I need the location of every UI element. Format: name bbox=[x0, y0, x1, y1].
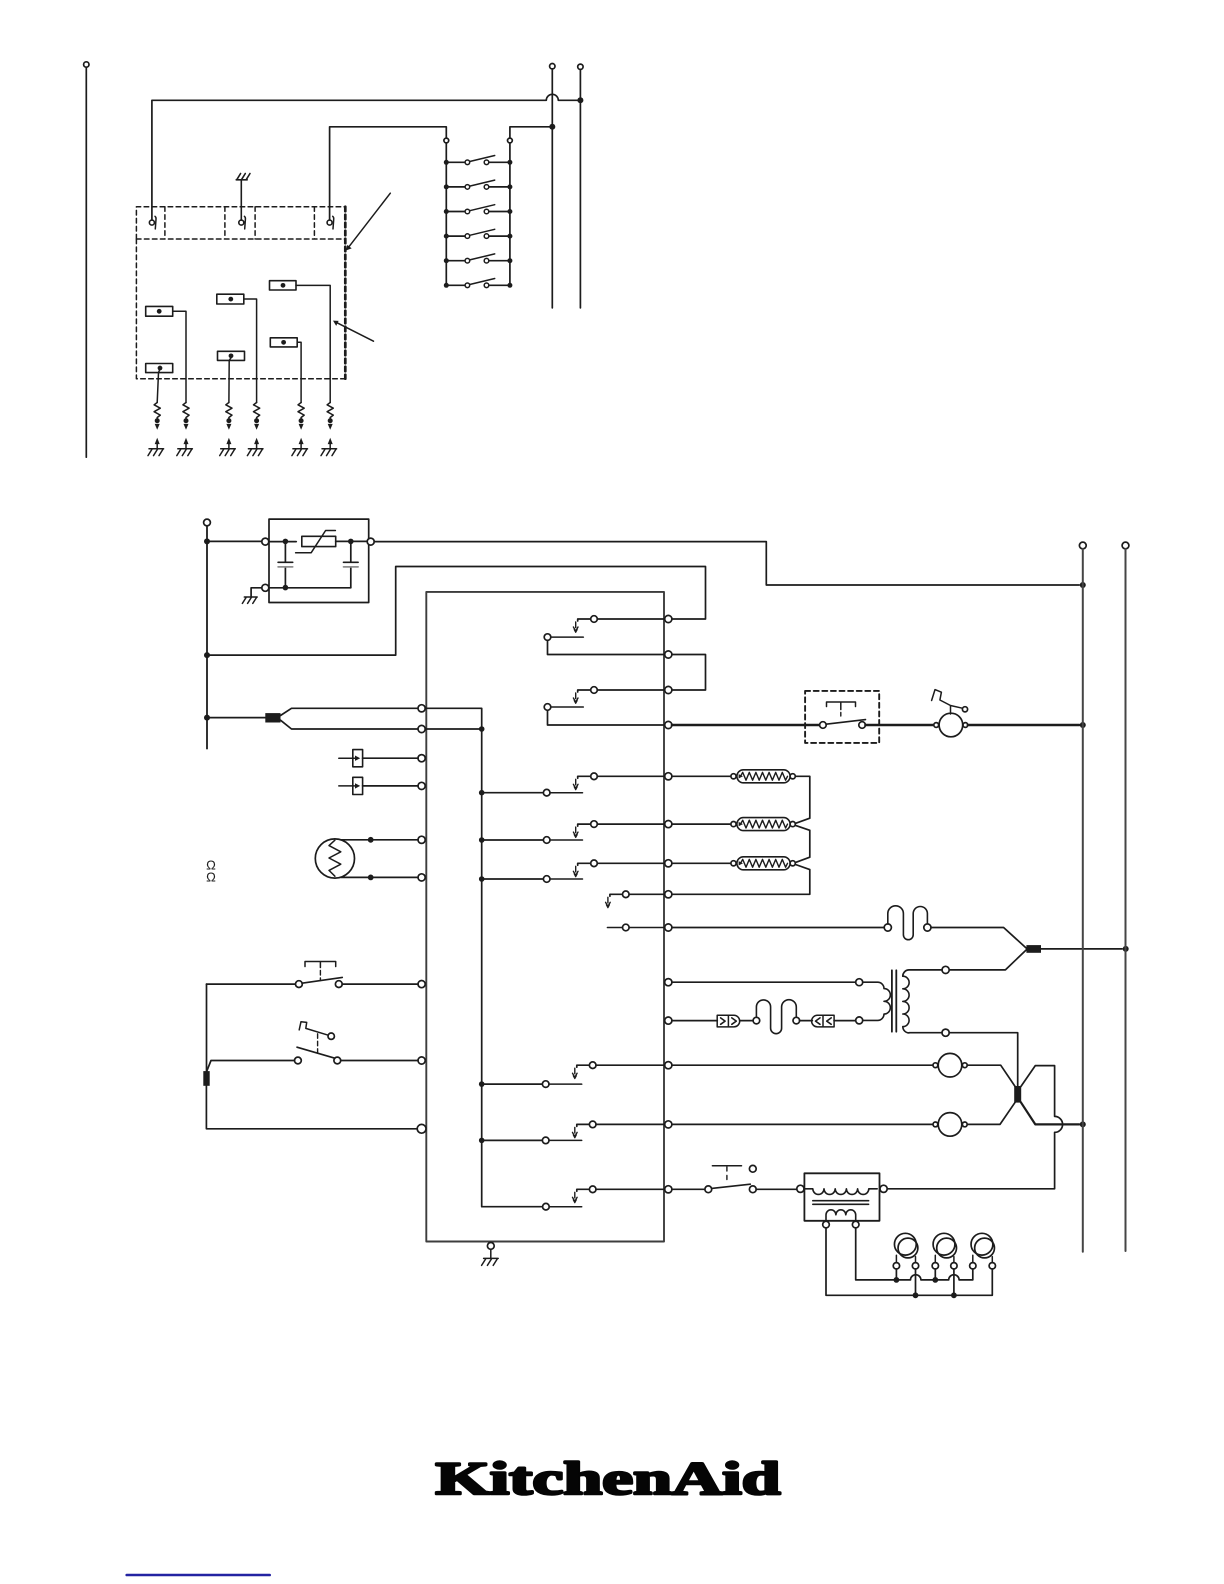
wire element row 1 bbox=[672, 775, 730, 777]
wire filter input row bbox=[207, 540, 262, 542]
wire K3 to bus R2 bbox=[1041, 948, 1122, 950]
connector K1 bbox=[265, 713, 280, 722]
wire cable split upper bbox=[281, 708, 419, 715]
wire cable split lower bbox=[281, 720, 419, 729]
thermal fuse F1 bbox=[884, 924, 891, 931]
pin solenoid 3 terminals bbox=[970, 1263, 976, 1269]
ground chassis (above module) bbox=[236, 174, 250, 221]
capacitor C2 bbox=[344, 541, 359, 587]
pin P-left 758.2 bbox=[418, 755, 425, 762]
switch interlock actuator bbox=[827, 702, 856, 710]
transformer T2 core bbox=[813, 1201, 869, 1205]
svg-text:Ω: Ω bbox=[206, 870, 216, 885]
connector plug CP1 bbox=[717, 1015, 740, 1027]
ground (igniter 6) bbox=[321, 449, 337, 456]
switch SW8 fixed from rail bbox=[479, 1138, 485, 1144]
switch SW-bank row 5 bbox=[444, 258, 449, 263]
igniter electrode block 5 bbox=[270, 281, 297, 290]
pin T2 sec left bbox=[823, 1221, 830, 1228]
wire secondary bottom row bbox=[909, 1032, 942, 1034]
node junction V1 bbox=[549, 124, 555, 130]
wire top feed with hop bbox=[152, 94, 581, 222]
spark gap output 6 bbox=[327, 403, 333, 419]
pin P-right 982.2 bbox=[665, 979, 672, 986]
pin P-left 839.8 bbox=[418, 836, 425, 843]
transformer T2 primary coil bbox=[804, 1189, 877, 1195]
switch SW1 fixed bbox=[544, 634, 551, 641]
leader arrow to igniter wire bbox=[336, 322, 373, 341]
ground (igniter 3) bbox=[220, 449, 236, 456]
control box outline bbox=[426, 592, 664, 1242]
wire element row 3 bbox=[672, 862, 730, 864]
ground (igniter 4) bbox=[247, 449, 263, 456]
wire filter right output bbox=[367, 538, 374, 545]
pin P-right 776.3 bbox=[665, 773, 672, 780]
pin P-right 894.3 bbox=[665, 891, 672, 898]
ground (igniter 5) bbox=[292, 449, 308, 456]
switch interlock contacts bbox=[820, 722, 827, 729]
wire element link right side bbox=[672, 776, 810, 894]
switch SW5 movable bbox=[578, 863, 591, 865]
wire to thermal fuse bbox=[672, 927, 884, 929]
varistor RV1 bbox=[302, 536, 336, 546]
pin P-left 708.3 bbox=[418, 705, 425, 712]
wire fan row to bus bbox=[968, 724, 1080, 727]
wire block4 lead bbox=[229, 358, 231, 403]
node filter nodes bbox=[283, 539, 289, 545]
spark gap output 2 bbox=[183, 403, 189, 419]
wire lamp top lead bbox=[341, 839, 418, 841]
wire bus R2 bbox=[1122, 542, 1129, 549]
pin P-right 1020.6 bbox=[665, 1017, 672, 1024]
switch SW9 fixed (rail corner) bbox=[543, 1203, 550, 1210]
wire X upper-right branch bbox=[887, 1066, 1062, 1189]
igniter electrode block 1 bbox=[146, 306, 173, 316]
switch SW-bank row 4 bbox=[444, 234, 449, 239]
spark gap output 1 bbox=[154, 403, 160, 419]
wire block6 lead bbox=[297, 342, 301, 402]
wire block1 lead bbox=[173, 311, 186, 402]
pin P-left 877.4 bbox=[418, 874, 425, 881]
wire V2 vertical bbox=[578, 64, 583, 69]
pin P-left 984.1 bbox=[418, 981, 425, 988]
terminal pin at x=241.3 bbox=[239, 220, 244, 225]
switch SW4 movable bbox=[578, 824, 591, 826]
switch door-lock actuator bbox=[712, 1165, 741, 1167]
transformer T1 core bbox=[892, 970, 896, 1031]
pin T2 right bbox=[880, 1185, 887, 1192]
pin P-right 1124.4 bbox=[665, 1121, 672, 1128]
pin solenoid 2 terminals bbox=[932, 1263, 938, 1269]
pin P-right 824.1 bbox=[665, 821, 672, 828]
transformer T2 secondary coil bbox=[826, 1210, 856, 1221]
wire solenoid mid bus bbox=[856, 1228, 973, 1280]
wire transformer secondary top bbox=[949, 950, 1026, 970]
wire second feed to ladder bbox=[330, 127, 447, 222]
switch SW6 fixed bbox=[623, 924, 630, 931]
wire filter ground row bbox=[283, 585, 289, 591]
wire lamp bottom lead bbox=[341, 876, 418, 878]
wire fuse to connector K3 bbox=[931, 928, 1026, 949]
wire bus R1 bbox=[1079, 542, 1086, 549]
temp sensor S2 bbox=[353, 777, 363, 794]
terminal pin at x=329.6 bbox=[327, 220, 332, 225]
wire harness row to connector K1 bbox=[207, 717, 265, 719]
node bus dots bbox=[204, 538, 210, 544]
loop fuse F2 bbox=[753, 1017, 760, 1024]
leader arrow to module bbox=[349, 193, 391, 247]
switch latch2 flag lever bbox=[299, 1022, 328, 1035]
switch SW6 movable bbox=[610, 894, 623, 896]
pin P-right 690.0 bbox=[665, 686, 672, 693]
wire left bus bbox=[204, 519, 211, 526]
pin P-right 863.3 bbox=[665, 860, 672, 867]
wire relay feed row bbox=[207, 567, 706, 656]
ground (igniter 1) bbox=[148, 449, 164, 456]
pin P-right 1065.2 bbox=[665, 1062, 672, 1069]
heating element E1 bbox=[731, 774, 736, 779]
node on bus R1 row585 bbox=[1080, 582, 1086, 588]
motor fan M3 bbox=[934, 723, 939, 728]
motor M1 (convection) bbox=[933, 1063, 938, 1068]
wire block5 lead bbox=[296, 285, 330, 402]
motor M2 (convection) bbox=[933, 1122, 938, 1127]
wire element row 2 bbox=[672, 823, 730, 825]
connector plug CP2 bbox=[800, 1020, 813, 1022]
wire primary top row bbox=[672, 981, 856, 983]
switch SW-bank row 6 bbox=[444, 283, 449, 288]
switch SW7 movable bbox=[577, 1065, 590, 1067]
switch SW1 (bake relay) movable bbox=[578, 619, 591, 621]
spark gap output 5 bbox=[298, 403, 304, 419]
pin P-right 654.5 bbox=[665, 651, 672, 658]
switch SW2 fixed bbox=[544, 704, 551, 711]
heating element E2 bbox=[731, 822, 736, 827]
pin T2 sec right bbox=[852, 1221, 859, 1228]
connector K3 bbox=[1026, 945, 1041, 953]
spark module terminal strip dashed bbox=[136, 207, 345, 239]
transformer T1 secondary coil bbox=[903, 976, 909, 1033]
connector K2 bbox=[203, 1071, 209, 1086]
connector K4 bbox=[1014, 1086, 1021, 1103]
wire motor1 row bbox=[672, 1064, 933, 1066]
wire inner rail bbox=[425, 708, 542, 1206]
pin solenoid 1 terminals bbox=[893, 1263, 899, 1269]
igniter electrode block 6 bbox=[270, 338, 297, 347]
switch SW-bank row 1 bbox=[444, 160, 449, 165]
oven lamp DS1 bbox=[315, 839, 354, 878]
wire to door lock switch bbox=[672, 1188, 705, 1190]
node junction V2 top bbox=[577, 97, 583, 103]
wire solenoid stubs bottom bbox=[916, 1269, 954, 1295]
switch SW2 movable bbox=[578, 690, 591, 692]
capacitor C1 bbox=[278, 541, 293, 587]
switch SW4 fixed from rail bbox=[479, 837, 485, 843]
spark module dashed outline bbox=[136, 207, 345, 379]
wire solenoid bottom bus bbox=[826, 1228, 992, 1295]
switch SW8 movable bbox=[577, 1124, 590, 1126]
switch SW5 fixed from rail bbox=[479, 876, 485, 882]
switch SW3 fixed from rail bbox=[479, 790, 485, 796]
switch latch1 actuator bbox=[305, 962, 336, 968]
pin P-right 927.5 bbox=[665, 924, 672, 931]
svg-text:KitchenAid: KitchenAid bbox=[436, 1453, 781, 1505]
switch latch1 contacts bbox=[207, 983, 296, 985]
transformer T1 primary coil bbox=[863, 982, 891, 1020]
pin P-left 1128.8 (large) bbox=[417, 1124, 426, 1133]
wire block2 lead bbox=[157, 370, 160, 403]
wire X lower-right branch to bus bbox=[1021, 1102, 1080, 1124]
wire solenoid stubs mid bbox=[896, 1269, 935, 1280]
switch door-lock contacts bbox=[705, 1186, 712, 1193]
interlock dashed box bbox=[805, 691, 879, 743]
heating element E3 bbox=[731, 861, 736, 866]
pin P-right 725.0 bbox=[665, 721, 672, 728]
solenoid valve coil L2 bbox=[933, 1233, 955, 1255]
spark gap output 4 bbox=[254, 403, 260, 419]
switch SW7 fixed from rail bbox=[479, 1081, 485, 1087]
switch SW-bank row 2 bbox=[444, 184, 449, 189]
wire U-link pins B-C bbox=[672, 655, 706, 691]
pin P-left 785.9 bbox=[418, 782, 425, 789]
pin T2 left bbox=[797, 1185, 804, 1192]
switch SW3 movable bbox=[578, 776, 591, 778]
transformer T2 box bbox=[804, 1173, 879, 1221]
wire primary bottom row with connectors bbox=[672, 1020, 717, 1022]
wire V1 vertical bbox=[550, 63, 555, 68]
ground (filter) bbox=[242, 597, 257, 603]
switch bank rails bbox=[444, 138, 449, 143]
wire K2 to large pin bbox=[206, 1086, 417, 1129]
centrifugal switch flag bbox=[932, 690, 963, 714]
pin P-left 1060.5 bbox=[418, 1057, 425, 1064]
temp sensor S1 bbox=[353, 750, 363, 767]
pin P-right 619.0 bbox=[665, 615, 672, 622]
spark gap output 3 bbox=[226, 403, 232, 419]
wire motor2 row bbox=[672, 1123, 933, 1125]
terminal pin at x=151.9 bbox=[149, 220, 154, 225]
RFI filter box bbox=[269, 519, 369, 602]
switch SW9 movable bbox=[577, 1189, 590, 1191]
igniter electrode block 4 bbox=[218, 351, 245, 360]
solenoid valve coil L3 bbox=[971, 1233, 993, 1255]
wire latch1 to connector K2 bbox=[206, 984, 208, 1071]
wire fan row (heavy) bbox=[672, 724, 820, 727]
pin P-right 1189.3 bbox=[665, 1186, 672, 1193]
solenoid valve coil L1 bbox=[894, 1233, 916, 1255]
ground (igniter 2) bbox=[177, 449, 193, 456]
blue rule bbox=[127, 1574, 270, 1577]
switch SW-bank row 3 bbox=[444, 209, 449, 214]
igniter electrode block 2 bbox=[146, 364, 173, 373]
igniter electrode block 3 bbox=[217, 294, 244, 304]
pin P-left 729.0 bbox=[418, 725, 425, 732]
wire block3 lead bbox=[244, 299, 257, 403]
ground pin of control box bbox=[487, 1243, 494, 1250]
wire L1 left vertical lead bbox=[84, 62, 89, 67]
switch latch2 contacts bbox=[297, 1047, 335, 1058]
